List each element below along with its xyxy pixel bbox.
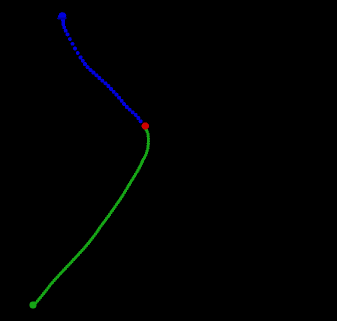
red bifurcation point	[142, 122, 149, 129]
green end point	[29, 301, 36, 308]
green dotted branch curve	[34, 128, 150, 305]
blue dotted branch curve	[58, 12, 143, 123]
